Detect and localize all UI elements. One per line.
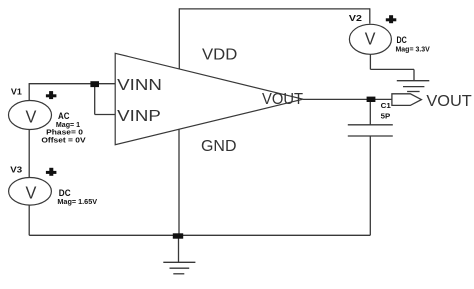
svg-text:C1: C1 xyxy=(381,101,391,110)
svg-text:Phase= 0: Phase= 0 xyxy=(46,130,83,137)
svg-text:Mag= 1: Mag= 1 xyxy=(56,122,80,129)
svg-text:DC: DC xyxy=(397,35,407,46)
svg-text:Offset = 0V: Offset = 0V xyxy=(41,137,86,144)
svg-text:VINN: VINN xyxy=(117,77,162,94)
svg-text:V3: V3 xyxy=(10,165,22,175)
svg-text:V: V xyxy=(26,182,37,202)
svg-text:Mag= 1.65V: Mag= 1.65V xyxy=(57,199,97,206)
svg-text:V2: V2 xyxy=(349,13,362,23)
svg-text:VDD: VDD xyxy=(202,47,237,64)
svg-text:5P: 5P xyxy=(381,111,391,120)
svg-text:V1: V1 xyxy=(11,86,22,96)
svg-text:DC: DC xyxy=(59,188,71,199)
svg-text:VINP: VINP xyxy=(117,108,161,125)
svg-text:AC: AC xyxy=(58,111,70,122)
svg-text:GND: GND xyxy=(201,138,237,155)
svg-text:V: V xyxy=(365,29,376,49)
svg-text:VOUT: VOUT xyxy=(262,91,303,108)
svg-text:Mag= 3.3V: Mag= 3.3V xyxy=(396,47,431,54)
svg-text:VOUT: VOUT xyxy=(426,93,472,110)
svg-text:V: V xyxy=(26,106,37,126)
